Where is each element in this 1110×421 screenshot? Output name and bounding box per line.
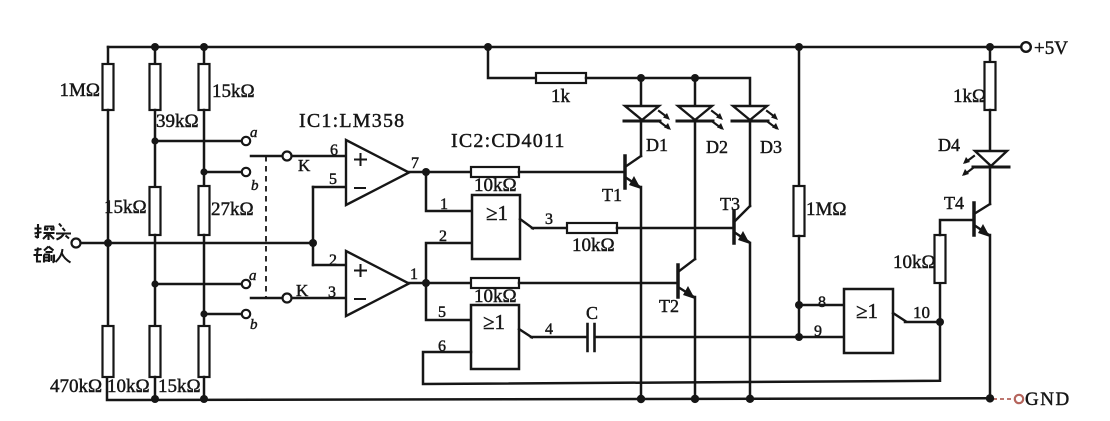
wire column3 segment through probe line to node b2 xyxy=(203,235,206,326)
node dot b2 xyxy=(200,310,207,317)
transistor T3 xyxy=(734,206,750,243)
resistor 10kΩ (series to T3 base) xyxy=(567,223,617,233)
svg-text:a: a xyxy=(250,125,258,141)
wire switch K2 pole xyxy=(251,297,282,300)
svg-text:2: 2 xyxy=(439,228,447,245)
switch K1 pole terminal xyxy=(283,152,292,161)
wire RC node to gate3 pin 8 xyxy=(799,304,844,307)
gate IC2a output wedge xyxy=(520,219,533,229)
wire column3 bottom tail xyxy=(203,377,206,399)
node dot RC pin9 xyxy=(795,333,803,341)
resistor 10kΩ (T4 base) xyxy=(935,235,946,283)
svg-text:2: 2 xyxy=(329,252,337,269)
resistor 10kΩ (bottom left) xyxy=(150,326,161,377)
node dot probe line left xyxy=(104,239,112,247)
svg-text:D4: D4 xyxy=(938,135,960,155)
LED D4 xyxy=(973,151,1009,167)
svg-text:8: 8 xyxy=(818,294,826,311)
wire top bus branch to 1k resistor xyxy=(488,47,536,78)
wire 1MΩ to RC node xyxy=(798,236,801,337)
wire resistor to T3 base xyxy=(617,227,734,230)
svg-text:D3: D3 xyxy=(760,137,782,157)
svg-text:T3: T3 xyxy=(720,194,740,214)
wire to op-amp pin 2 xyxy=(313,264,346,267)
probe input chinese text 头 xyxy=(56,224,71,240)
node dot ground x641 xyxy=(637,395,645,403)
resistor 1kΩ xyxy=(985,62,996,110)
svg-text:≥1: ≥1 xyxy=(856,299,878,323)
svg-text:5: 5 xyxy=(438,304,446,321)
wire node a1 to switch contact a xyxy=(155,140,241,143)
svg-text:27kΩ: 27kΩ xyxy=(211,199,254,220)
node dot a1 xyxy=(151,137,158,144)
probe input terminal xyxy=(72,239,81,248)
node dot LED feed D2 xyxy=(691,74,699,82)
svg-text:10kΩ: 10kΩ xyxy=(893,252,936,273)
wire column3 segment to node b1 xyxy=(203,110,206,186)
svg-text:T1: T1 xyxy=(602,185,622,205)
node dot ground x695 xyxy=(691,395,699,403)
wire gate3 output 10 to node xyxy=(905,321,940,324)
ground bus wire xyxy=(107,377,990,400)
wire node b2 to switch contact b xyxy=(204,313,241,316)
LED D1 xyxy=(624,106,660,121)
wire switch K1 pole xyxy=(251,155,282,158)
probe input chinese text 入 xyxy=(56,249,71,263)
node dot top bus x488 xyxy=(484,43,492,51)
svg-text:3: 3 xyxy=(545,211,553,228)
wire column1 middle segment xyxy=(107,110,110,243)
wire branch from node1 up to gate1 pin 2 xyxy=(426,243,472,283)
NAND gate IC2b xyxy=(471,305,519,369)
svg-text:3: 3 xyxy=(328,284,336,301)
+5V terminal xyxy=(1021,42,1031,52)
wire probe input line xyxy=(80,242,313,245)
svg-text:≥1: ≥1 xyxy=(486,201,508,225)
resistor 10kΩ (series to T2 base) xyxy=(471,278,519,288)
switch contact b1 xyxy=(242,168,250,176)
node dot top bus x799 xyxy=(795,43,803,51)
svg-text:IC1:LM358: IC1:LM358 xyxy=(299,110,405,132)
wire T3 emitter to ground bus xyxy=(749,243,752,399)
switch K2 pole terminal xyxy=(283,294,292,303)
wire resistor to T1 base xyxy=(519,171,625,174)
wire 1kΩ to D4 anode xyxy=(989,110,992,151)
svg-text:1MΩ: 1MΩ xyxy=(59,80,100,101)
LED D1 light arrows xyxy=(659,111,668,128)
wire D4 cathode to T4 collector xyxy=(989,167,992,204)
resistor 27kΩ xyxy=(199,186,210,235)
node dot ground x750 xyxy=(746,395,754,403)
gate IC2c output wedge xyxy=(893,313,906,322)
svg-text:4: 4 xyxy=(545,321,553,338)
LED D3 light arrows xyxy=(767,111,776,128)
wire resistor to T2 base xyxy=(519,282,678,285)
transistor T1 xyxy=(625,156,641,188)
wire D1 anode xyxy=(640,78,643,106)
svg-text:10kΩ: 10kΩ xyxy=(474,286,517,307)
svg-text:D1: D1 xyxy=(646,135,668,155)
svg-text:IC2:CD4011: IC2:CD4011 xyxy=(451,130,566,152)
wire D2 cathode to T2 collector xyxy=(694,121,697,259)
transistor T2 xyxy=(678,259,695,297)
wire capacitor to RC node xyxy=(596,336,799,339)
wire gate1 output 3 to resistor xyxy=(532,227,567,230)
op-amp U1B plus sign xyxy=(355,265,366,276)
svg-text:7: 7 xyxy=(411,155,419,172)
wire resistor to T4 base xyxy=(940,220,974,235)
svg-text:C: C xyxy=(586,303,598,323)
LED D4 light arrows xyxy=(965,156,974,174)
wire column1 lower segment xyxy=(107,243,110,326)
svg-text:1kΩ: 1kΩ xyxy=(953,86,986,107)
wire gate2 pin6 feedback loop xyxy=(423,322,940,384)
resistor 1MΩ (right) xyxy=(794,186,805,236)
op-amp U1A plus sign xyxy=(355,154,366,165)
wire K2 to op-amp pin 3 xyxy=(291,297,346,300)
wire T2 emitter to ground bus xyxy=(694,297,697,399)
wire column2 top segment xyxy=(154,47,157,64)
wire LED feed line xyxy=(586,78,750,106)
probe input chinese text 探 xyxy=(35,224,55,240)
wire op-amp2 output pin 1 to resistor xyxy=(408,282,471,285)
LED D3 xyxy=(732,106,768,121)
resistor 15kΩ (top row) xyxy=(199,64,210,110)
resistor 10kΩ (series to T1 base) xyxy=(471,167,519,177)
node dot LED feed D1 xyxy=(637,74,645,82)
probe input chinese text 输 xyxy=(34,247,55,263)
svg-text:1MΩ: 1MΩ xyxy=(806,199,847,220)
transistor T4 xyxy=(974,203,990,235)
wire D3 cathode to T3 collector xyxy=(749,121,752,206)
op-amp U1B IC1:LM358 (bottom) xyxy=(346,251,409,316)
svg-text:15kΩ: 15kΩ xyxy=(212,81,255,102)
wire 1kΩ column from top bus xyxy=(989,47,992,62)
svg-text:≥1: ≥1 xyxy=(483,310,505,334)
svg-text:a: a xyxy=(249,268,257,284)
wire T4 emitter to ground bus xyxy=(989,235,992,398)
wire +5V top bus xyxy=(108,46,1021,49)
svg-text:10kΩ: 10kΩ xyxy=(474,175,517,196)
wire node a2 to switch contact a xyxy=(155,283,241,286)
svg-text:1: 1 xyxy=(410,266,418,283)
node dot top bus x990 xyxy=(986,43,994,51)
svg-text:T2: T2 xyxy=(659,296,679,316)
node dot b1 xyxy=(200,168,207,175)
node dot top bus x156 xyxy=(151,43,159,51)
wire column2 segment through probe line to node a2 xyxy=(154,235,157,326)
wire branch from node1 down to gate2 pin 5 xyxy=(426,283,471,320)
wire node b1 to switch contact b xyxy=(204,171,241,174)
svg-text:6: 6 xyxy=(438,338,446,355)
switch contact b2 xyxy=(242,310,250,318)
gate IC2b output wedge xyxy=(519,329,532,338)
svg-text:9: 9 xyxy=(814,323,822,340)
wire gate2 output 4 to capacitor xyxy=(531,336,586,339)
wire D2 anode xyxy=(694,78,697,106)
svg-text:10: 10 xyxy=(913,303,930,322)
NAND gate IC2c xyxy=(844,289,893,353)
NAND gate IC2a xyxy=(472,195,520,259)
wire probe tee vertical xyxy=(312,187,315,265)
node dot ground x990 xyxy=(986,394,994,402)
wire dashed lead to GND terminal xyxy=(993,398,1013,400)
mechanical link dashed line between K switches xyxy=(265,156,267,298)
svg-text:+5V: +5V xyxy=(1034,38,1068,59)
switch contact a2 xyxy=(242,280,250,288)
wire column1 top segment xyxy=(107,47,110,64)
op-amp U1A minus sign xyxy=(355,187,365,189)
wire T1 emitter to ground bus xyxy=(640,187,643,399)
resistor 39kΩ xyxy=(150,64,161,110)
wire branch from node7 to gate1 pin 1 xyxy=(426,172,472,211)
LED D2 xyxy=(677,106,713,121)
wire column2 bottom tail xyxy=(154,377,157,399)
wire K1 to op-amp pin 6 xyxy=(291,155,346,158)
svg-text:b: b xyxy=(250,317,258,333)
svg-text:GND: GND xyxy=(1025,389,1071,410)
svg-text:470kΩ: 470kΩ xyxy=(50,376,102,397)
node dot op-amp1 output xyxy=(422,168,430,176)
svg-text:1k: 1k xyxy=(551,86,571,107)
svg-text:5: 5 xyxy=(329,171,337,188)
wire to op-amp pin 5 xyxy=(313,186,346,189)
resistor 470kΩ xyxy=(103,326,114,377)
svg-text:15kΩ: 15kΩ xyxy=(104,197,147,218)
wire column2 segment to node a1 xyxy=(154,110,157,187)
resistor 1MΩ (top left) xyxy=(103,64,114,110)
svg-text:1: 1 xyxy=(440,196,448,213)
GND terminal xyxy=(1015,395,1023,403)
wire column3 top segment xyxy=(203,47,206,64)
wire RC node to gate3 pin 9 xyxy=(799,336,844,339)
node dot op-amp2 output xyxy=(422,279,430,287)
wire node10 up to resistor xyxy=(939,283,942,322)
svg-text:D2: D2 xyxy=(706,137,728,157)
resistor 1k xyxy=(536,73,586,83)
svg-text:T4: T4 xyxy=(944,193,964,213)
node dot RC pin8 xyxy=(795,301,803,309)
node dot top bus x204 xyxy=(200,43,208,51)
node dot ground x155 xyxy=(151,395,159,403)
LED D2 light arrows xyxy=(712,111,721,128)
resistor 15kΩ (bottom row) xyxy=(199,326,210,377)
switch contact a1 xyxy=(242,137,250,145)
wire op-amp1 output pin 7 to resistor xyxy=(409,171,471,174)
wire 1MΩ column from top bus xyxy=(798,47,801,186)
node dot a2 xyxy=(151,280,158,287)
svg-text:39kΩ: 39kΩ xyxy=(156,111,199,132)
node dot ground x204 xyxy=(200,395,208,403)
svg-text:6: 6 xyxy=(330,142,338,159)
wire D1 cathode to T1 collector xyxy=(640,121,643,156)
capacitor C xyxy=(588,324,595,351)
resistor 15kΩ (middle row) xyxy=(150,187,161,235)
svg-text:15kΩ: 15kΩ xyxy=(158,376,201,397)
svg-text:10kΩ: 10kΩ xyxy=(572,235,615,256)
svg-text:K: K xyxy=(296,281,309,300)
op-amp U1B minus sign xyxy=(355,298,365,300)
op-amp U1A IC1:LM358 (top) xyxy=(346,140,409,205)
node dot probe tee xyxy=(309,239,317,247)
svg-text:b: b xyxy=(251,178,259,194)
svg-text:K: K xyxy=(298,156,311,175)
svg-text:10kΩ: 10kΩ xyxy=(107,376,150,397)
node dot gate3 output xyxy=(936,318,944,326)
